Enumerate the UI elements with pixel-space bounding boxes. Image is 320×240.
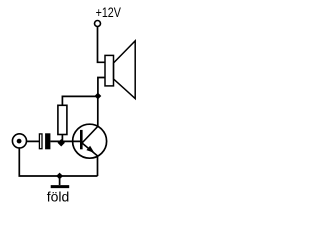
svg-text:föld: föld	[47, 189, 70, 205]
svg-text:+12V: +12V	[96, 5, 122, 21]
